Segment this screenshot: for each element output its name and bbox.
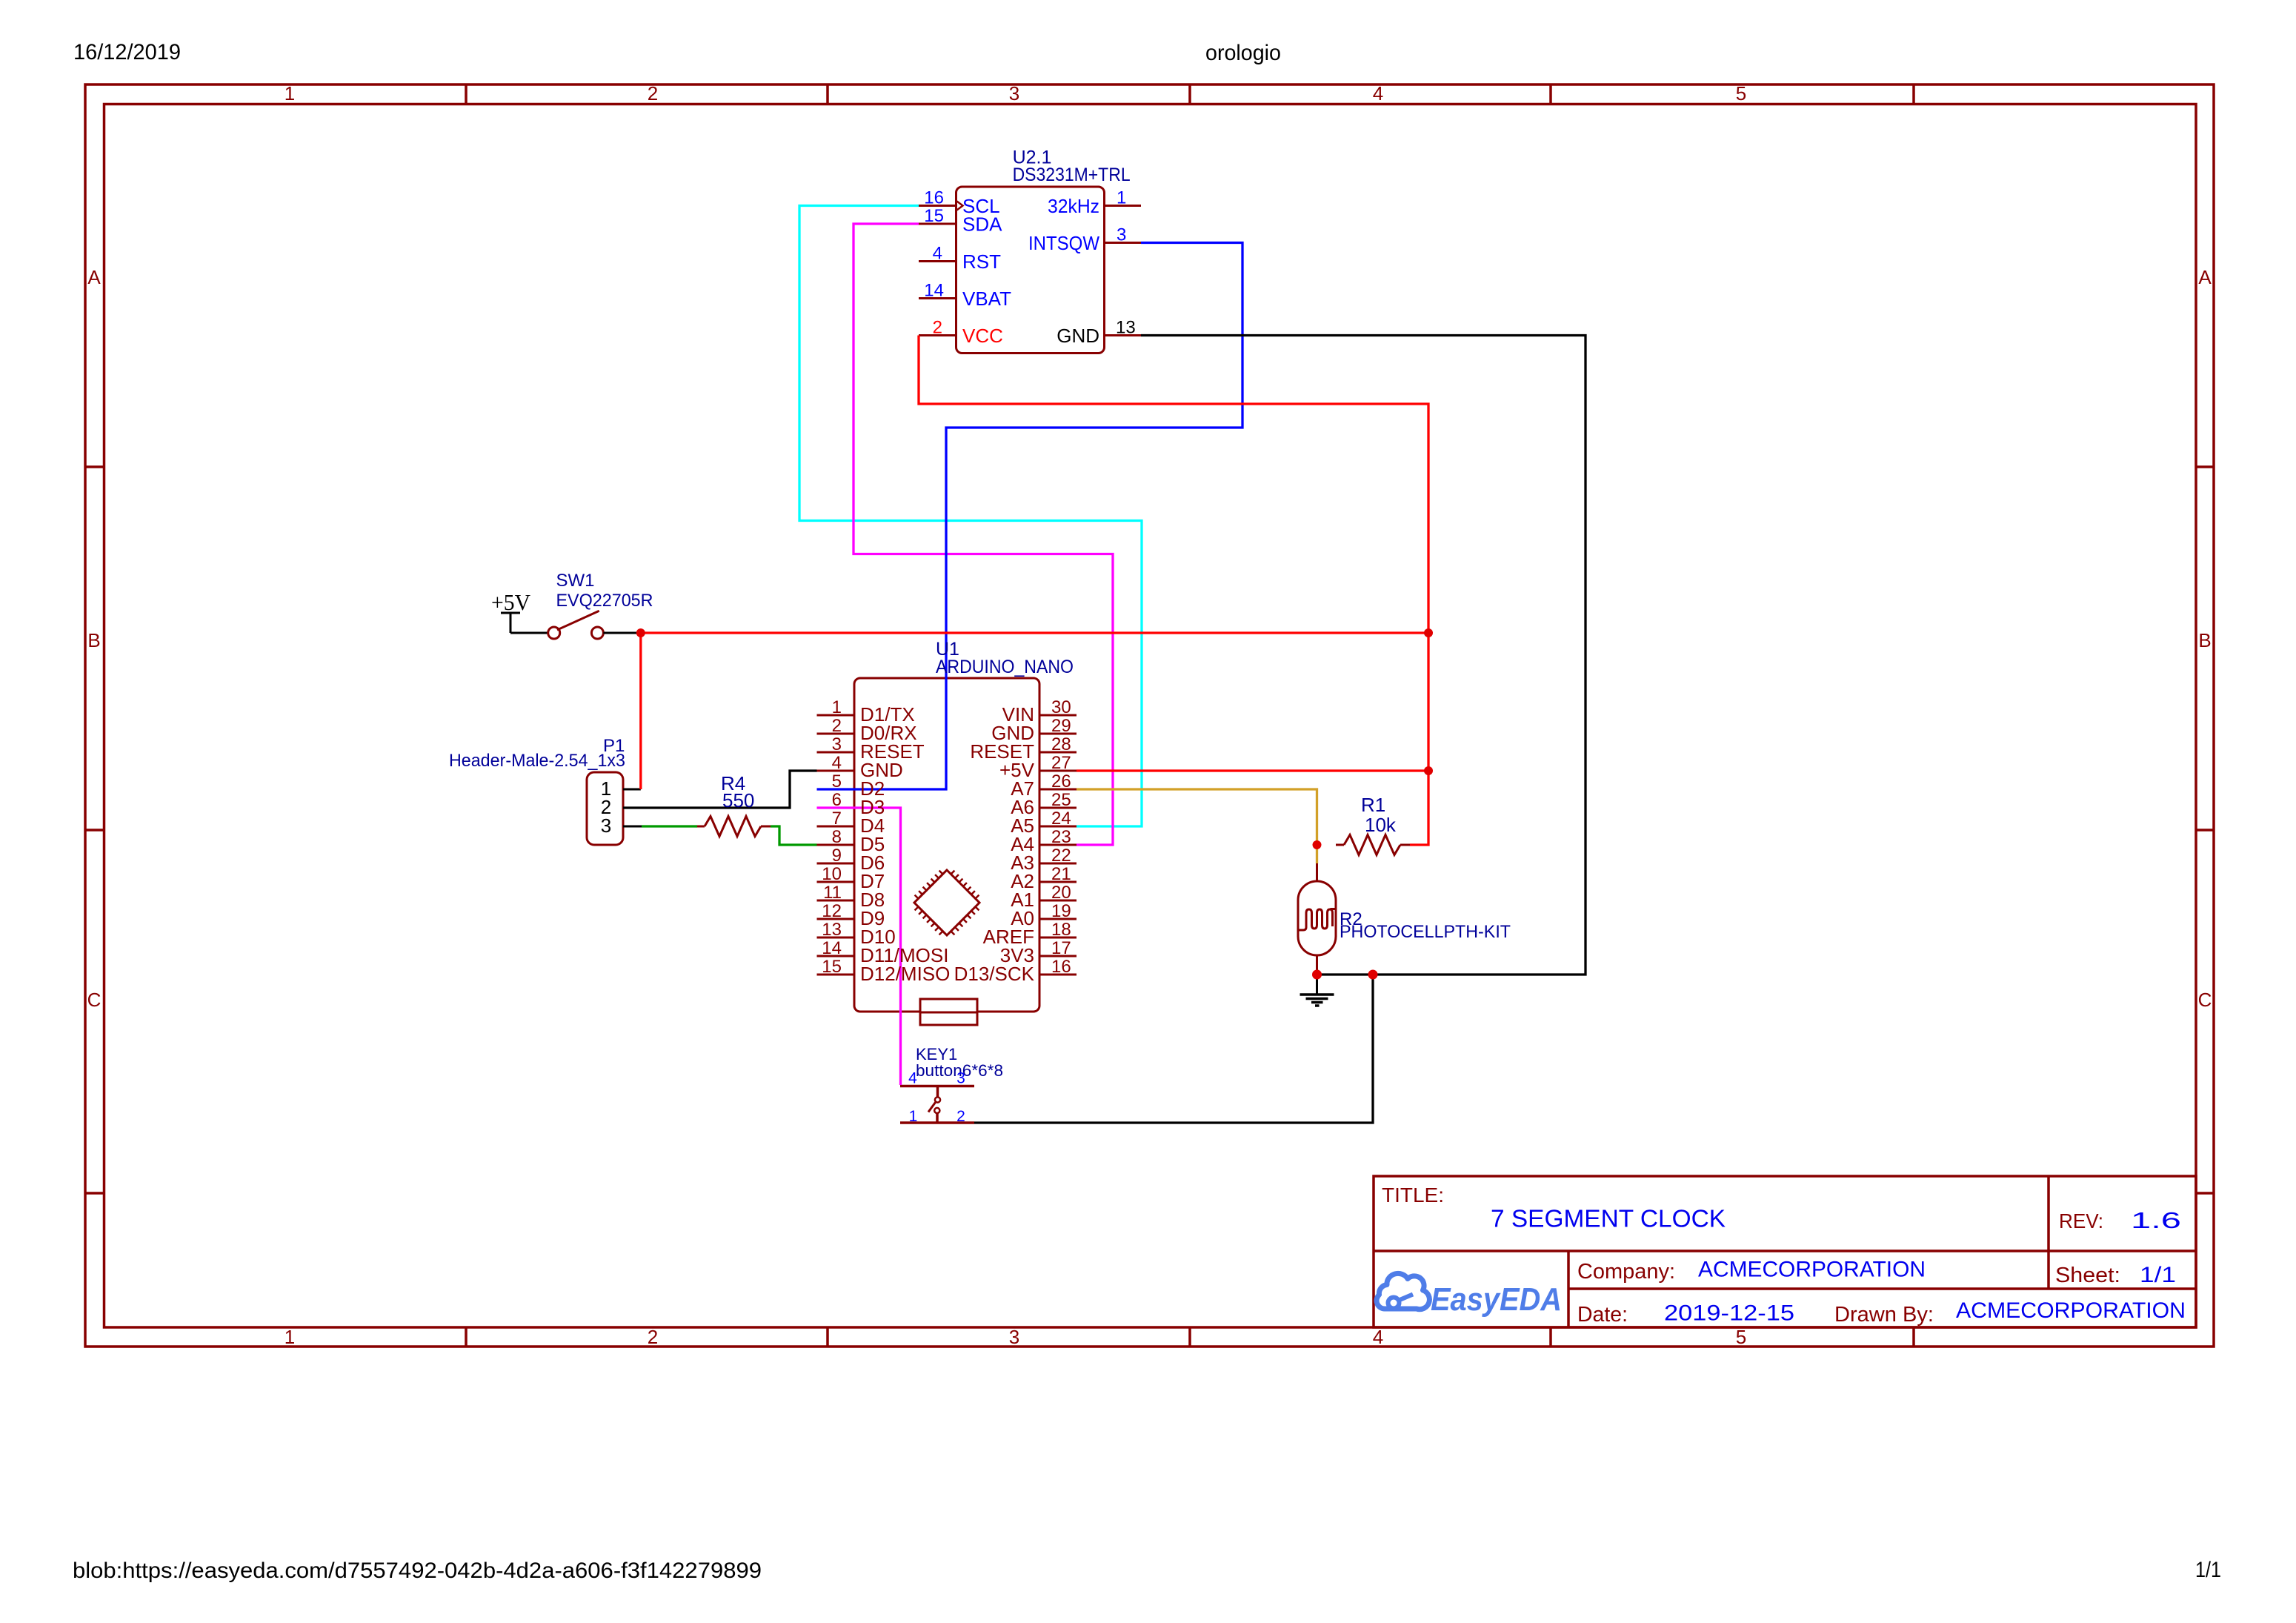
svg-text:ARDUINO_NANO: ARDUINO_NANO: [936, 657, 1074, 677]
svg-text:3: 3: [1117, 225, 1126, 245]
svg-text:3: 3: [1009, 82, 1019, 104]
wire GND node to KEY1 pin2 (black): [974, 975, 1373, 1123]
photocell R2 PHOTOCELLPTH-KIT: [1298, 863, 1337, 975]
svg-text:16/12/2019: 16/12/2019: [73, 40, 181, 64]
junction R2 bottom / ground: [1312, 970, 1322, 980]
svg-text:EVQ22705R: EVQ22705R: [556, 591, 653, 611]
svg-text:R1: R1: [1361, 794, 1385, 816]
svg-text:DS3231M+TRL: DS3231M+TRL: [1013, 165, 1131, 185]
wire SDA to A4 (magenta): [853, 224, 1113, 845]
svg-text:SDA: SDA: [962, 213, 1002, 236]
svg-text:15: 15: [924, 206, 944, 226]
wire +5V switch row (red): [641, 631, 1428, 634]
svg-text:blob:https://easyeda.com/d7557: blob:https://easyeda.com/d7557492-042b-4…: [73, 1559, 762, 1583]
power flag +5V: [501, 613, 520, 633]
svg-text:14: 14: [924, 281, 944, 301]
junction +5V net at pin27 row: [1424, 766, 1433, 775]
svg-text:REV:: REV:: [2059, 1209, 2103, 1232]
junction R1-R2-A7 node: [1313, 840, 1322, 849]
connector P1 Header-Male-2.54_1x3: [587, 772, 642, 845]
svg-text:GND: GND: [1057, 325, 1099, 347]
IC U1 ARDUINO_NANO: [817, 678, 1077, 1025]
svg-text:16: 16: [1051, 957, 1071, 977]
wire A7 to R1/R2 node (orange): [1077, 789, 1317, 863]
svg-text:17: 17: [1051, 938, 1071, 958]
svg-text:3: 3: [1009, 1326, 1019, 1348]
svg-text:13: 13: [1116, 318, 1136, 338]
svg-text:550: 550: [722, 789, 754, 811]
EasyEDA logo: [1377, 1273, 1562, 1318]
svg-text:27: 27: [1051, 753, 1071, 773]
svg-text:4: 4: [1373, 1326, 1383, 1348]
svg-text:D12/MISO: D12/MISO: [860, 963, 950, 985]
svg-text:21: 21: [1051, 864, 1071, 884]
wire SCL to A5 (cyan): [799, 206, 1142, 827]
svg-text:28: 28: [1051, 734, 1071, 754]
svg-text:13: 13: [822, 920, 842, 940]
svg-text:A: A: [87, 266, 101, 288]
wire U2 GND to R2 bottom (black): [1141, 336, 1585, 975]
svg-text:C: C: [87, 989, 102, 1011]
junction +5V net at switch row: [1424, 628, 1433, 637]
svg-text:TITLE:: TITLE:: [1382, 1184, 1444, 1207]
svg-text:orologio: orologio: [1205, 41, 1281, 65]
svg-text:14: 14: [822, 938, 842, 958]
pushbutton KEY1 button6*6*8: [900, 1086, 974, 1124]
svg-text:1/1: 1/1: [2195, 1558, 2221, 1582]
svg-text:5: 5: [1736, 1326, 1746, 1348]
svg-text:EasyEDA: EasyEDA: [1431, 1281, 1562, 1318]
svg-text:INTSQW: INTSQW: [1028, 232, 1099, 254]
resistor R1 10k: [1336, 835, 1410, 855]
svg-text:22: 22: [1051, 846, 1071, 866]
switch SW1 EVQ22705R: [510, 611, 641, 639]
svg-text:29: 29: [1051, 716, 1071, 736]
svg-text:3: 3: [601, 814, 611, 837]
svg-text:2: 2: [956, 1108, 965, 1125]
svg-text:18: 18: [1051, 920, 1071, 940]
ground symbol: [1300, 975, 1334, 1006]
junction GND net to KEY1 branch: [1368, 970, 1378, 980]
svg-text:VBAT: VBAT: [962, 288, 1011, 310]
wire SW1 to P1 pin1 (red): [639, 633, 642, 789]
svg-text:3: 3: [956, 1070, 965, 1087]
svg-text:4: 4: [832, 753, 842, 773]
svg-text:8: 8: [832, 827, 842, 847]
svg-text:7: 7: [832, 809, 842, 829]
wire D3 to KEY1 (magenta): [817, 808, 901, 1085]
svg-text:2: 2: [648, 82, 658, 104]
svg-text:1: 1: [909, 1108, 918, 1125]
svg-text:26: 26: [1051, 771, 1071, 791]
svg-text:D13/SCK: D13/SCK: [954, 963, 1035, 985]
svg-text:1/1: 1/1: [2140, 1263, 2176, 1287]
wire VCC net (red): [919, 336, 1428, 846]
svg-text:Drawn By:: Drawn By:: [1834, 1303, 1934, 1327]
svg-text:7 SEGMENT CLOCK: 7 SEGMENT CLOCK: [1491, 1205, 1726, 1232]
svg-text:Company:: Company:: [1577, 1260, 1675, 1284]
svg-text:32kHz: 32kHz: [1048, 195, 1099, 217]
svg-text:1: 1: [1117, 188, 1126, 208]
svg-text:2: 2: [933, 318, 942, 338]
svg-text:PHOTOCELLPTH-KIT: PHOTOCELLPTH-KIT: [1340, 922, 1511, 942]
svg-text:2019-12-15: 2019-12-15: [1664, 1301, 1794, 1326]
svg-text:30: 30: [1051, 697, 1071, 717]
svg-text:Date:: Date:: [1577, 1303, 1628, 1327]
svg-text:9: 9: [832, 846, 842, 866]
svg-text:VCC: VCC: [962, 325, 1003, 347]
svg-text:+5V: +5V: [491, 589, 531, 615]
svg-text:3: 3: [832, 734, 842, 754]
svg-text:1: 1: [832, 697, 842, 717]
wire P1 pin2 to GND pin4 (black): [623, 771, 817, 808]
resistor R4 550: [696, 817, 771, 837]
svg-text:C: C: [2198, 989, 2212, 1011]
svg-text:RST: RST: [962, 250, 1001, 273]
wire +5V pin27 (red): [1077, 769, 1428, 771]
svg-text:20: 20: [1051, 883, 1071, 903]
svg-text:A: A: [2198, 266, 2212, 288]
svg-text:25: 25: [1051, 790, 1071, 810]
svg-text:1: 1: [284, 1326, 295, 1348]
svg-text:6: 6: [832, 790, 842, 810]
svg-text:4: 4: [1373, 82, 1383, 104]
svg-text:SW1: SW1: [556, 571, 595, 591]
svg-text:5: 5: [1736, 82, 1746, 104]
svg-text:ACMECORPORATION: ACMECORPORATION: [1698, 1258, 1926, 1282]
wire INTSQW to D2 (blue): [817, 243, 1243, 790]
svg-text:2: 2: [832, 716, 842, 736]
svg-text:23: 23: [1051, 827, 1071, 847]
svg-text:Sheet:: Sheet:: [2055, 1264, 2120, 1287]
IC U2.1 DS3231M+TRL: [919, 187, 1141, 354]
svg-text:B: B: [87, 629, 100, 651]
svg-text:5: 5: [832, 771, 842, 791]
svg-text:11: 11: [823, 883, 842, 903]
svg-text:4: 4: [908, 1070, 917, 1087]
title block: [1374, 1176, 2196, 1327]
svg-text:10k: 10k: [1365, 814, 1397, 836]
svg-text:4: 4: [933, 244, 942, 264]
svg-text:15: 15: [822, 957, 842, 977]
svg-text:10: 10: [822, 864, 842, 884]
svg-text:16: 16: [924, 188, 944, 208]
wire R4 to D5 (green): [771, 826, 817, 845]
svg-text:12: 12: [822, 901, 842, 921]
svg-text:Header-Male-2.54_1x3: Header-Male-2.54_1x3: [449, 751, 625, 771]
junction SW1 output node: [636, 628, 645, 637]
svg-text:ACMECORPORATION: ACMECORPORATION: [1956, 1298, 2186, 1323]
wire P1 pin3 to R4 (green): [642, 825, 697, 827]
svg-text:1: 1: [284, 82, 295, 104]
svg-text:19: 19: [1051, 901, 1071, 921]
svg-text:B: B: [2198, 629, 2211, 651]
svg-text:1.6: 1.6: [2131, 1207, 2181, 1233]
svg-text:24: 24: [1051, 809, 1071, 829]
svg-text:2: 2: [648, 1326, 658, 1348]
